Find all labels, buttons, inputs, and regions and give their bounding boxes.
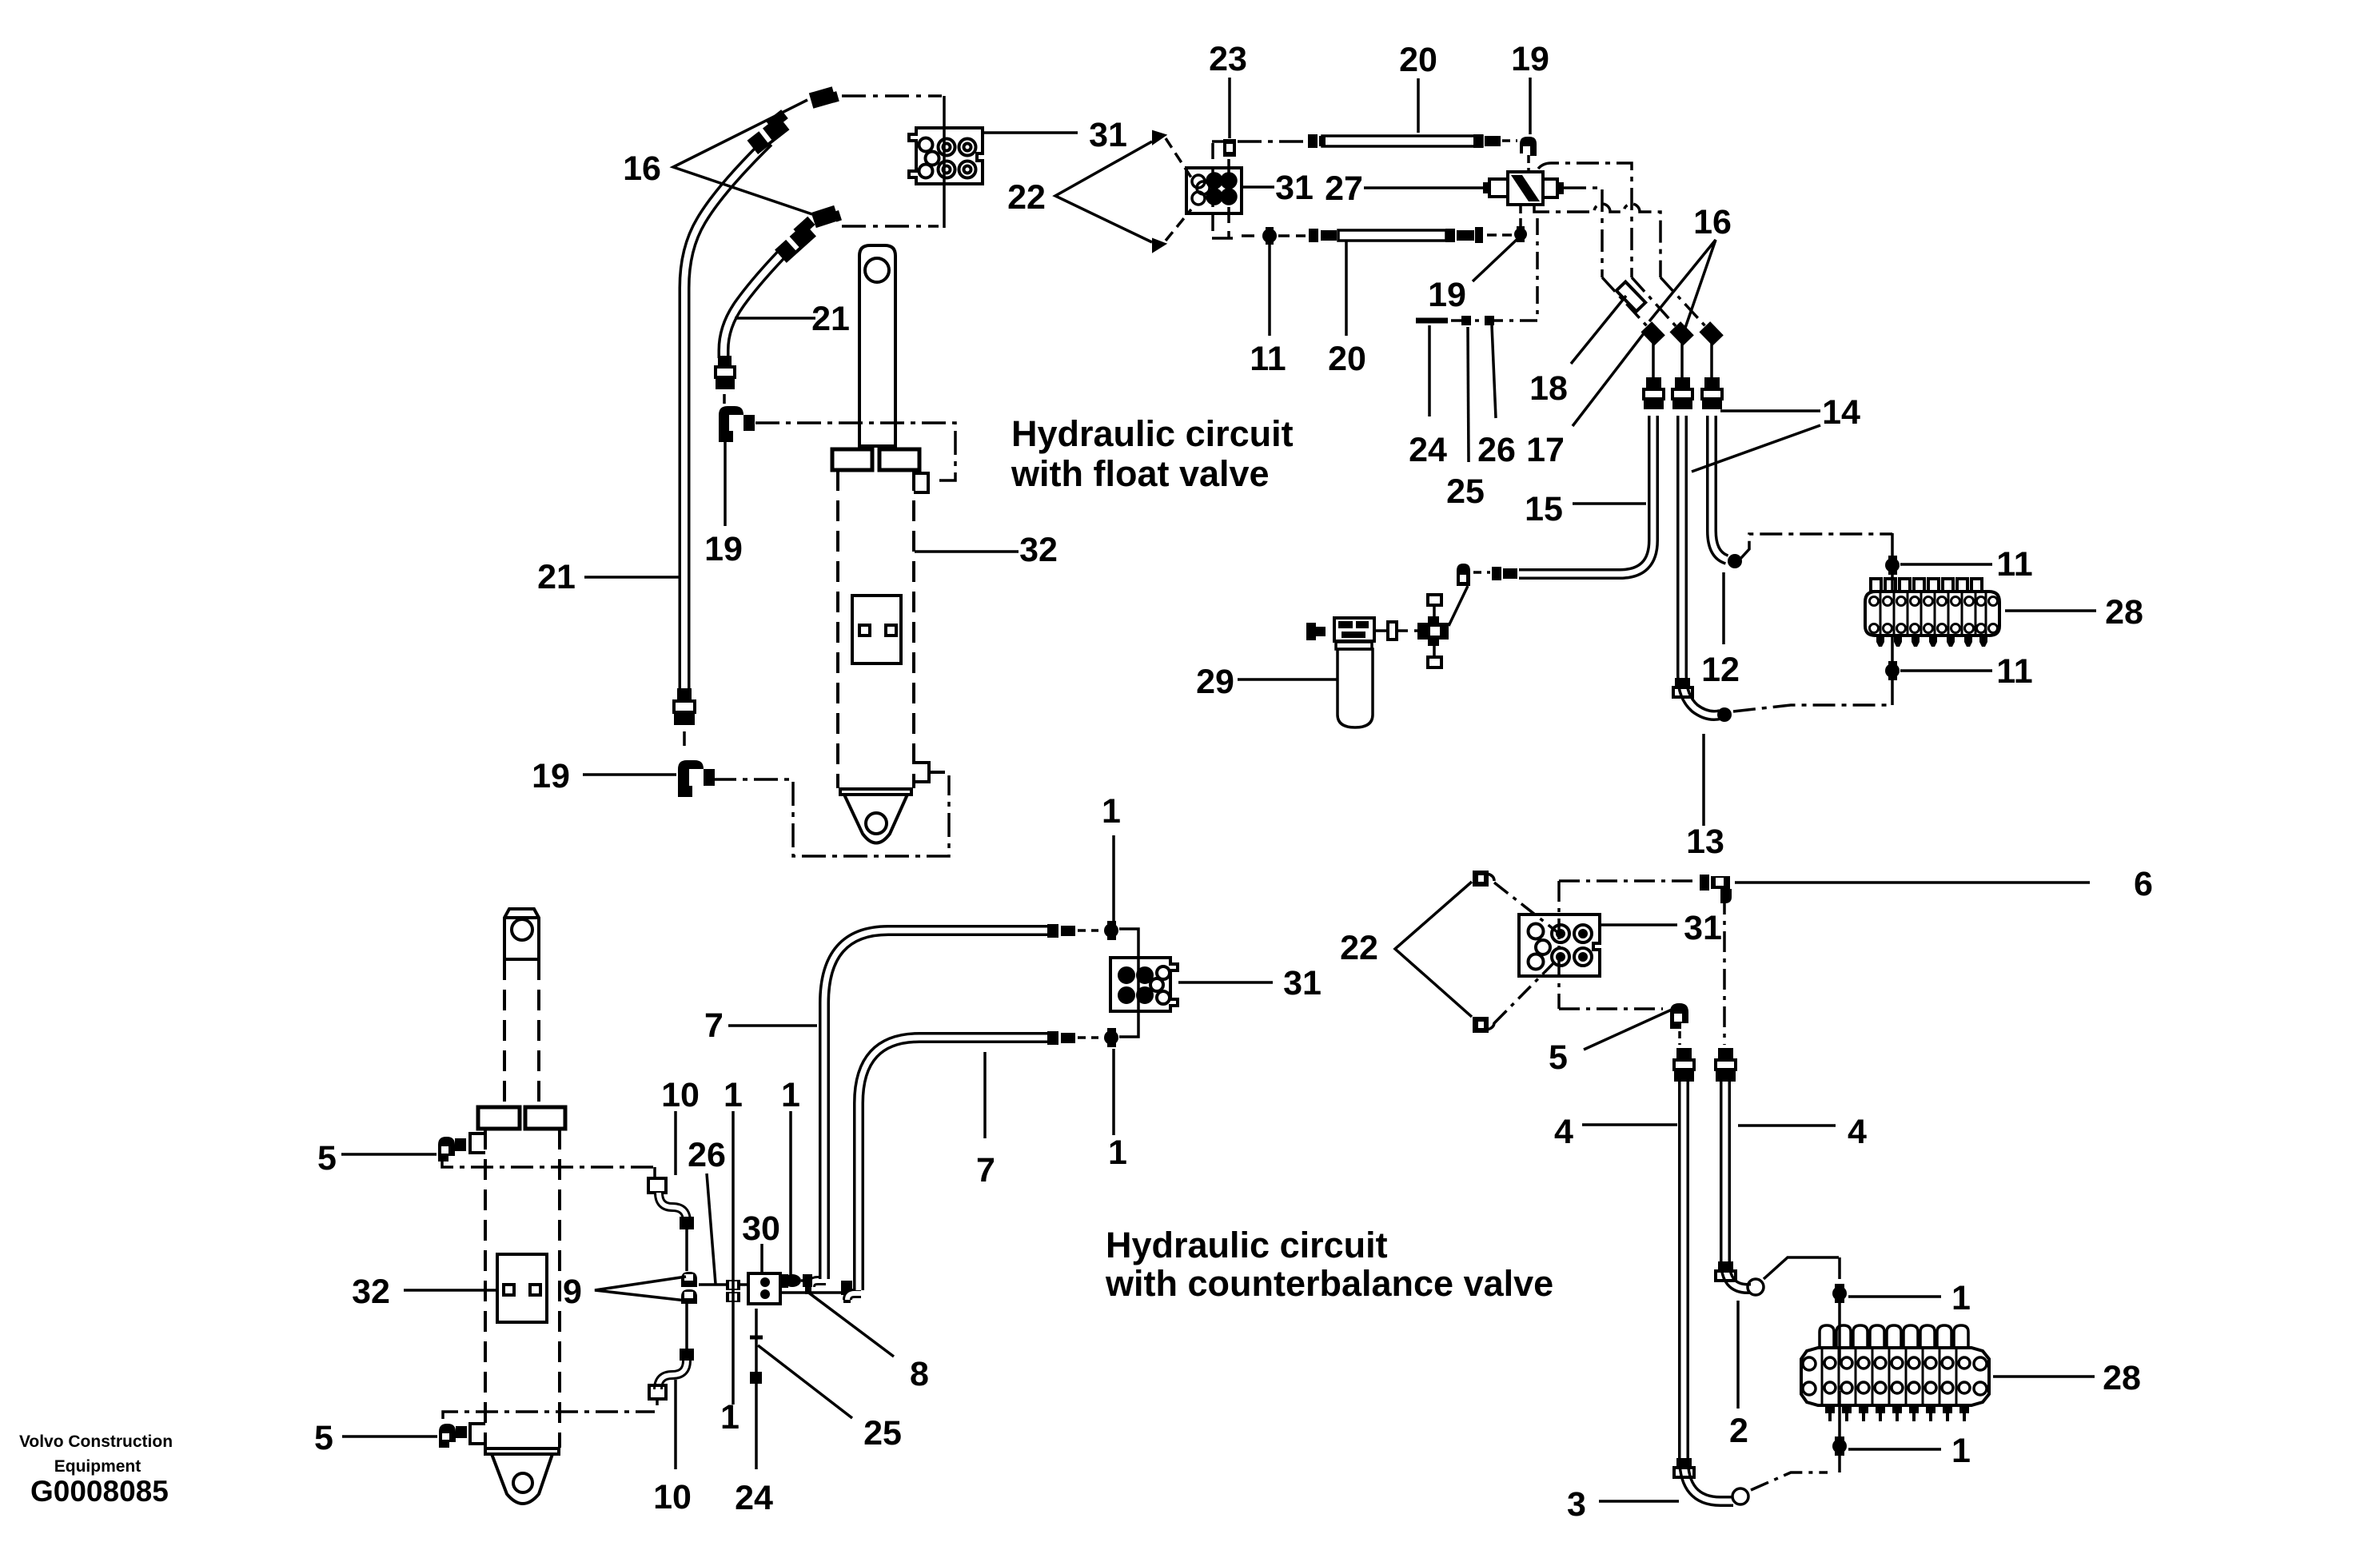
leader 11 top [1900,563,1992,566]
leader 25 [1468,327,1469,462]
port open B4 b [1536,940,1550,954]
fitting dot hose14 end [1728,554,1742,568]
hose 4 left bottom threads [1674,1458,1694,1477]
wire dash elbow6 to hose4 mid [1723,894,1726,1045]
hose 10 upper S [659,1193,687,1221]
fitting 16a bowtie [1640,321,1664,345]
fitting dot hose12 end [1717,707,1732,722]
svg-text:5: 5 [314,1419,333,1457]
port open circle B1 a [919,138,933,152]
wire dash-dot top to elbow 6 [1559,879,1696,883]
manifold top tabs [1871,579,1982,592]
leader 8 [807,1292,894,1357]
svg-text:5: 5 [1549,1038,1568,1077]
washer 1 upper bowtie [726,1280,740,1290]
valve block 31 B1 [909,128,983,184]
hose 4 left [1684,1082,1733,1501]
washer right of head [1388,622,1397,640]
fitting 5 bottom [439,1424,467,1448]
manifold bottom pins [1825,1405,1969,1421]
fitting 11 bottom dot [1885,661,1900,680]
hose 21 right bottom threads [716,356,735,389]
wire dash-dot B1 top to hose16 upper [842,94,942,98]
svg-text:25: 25 [863,1414,902,1452]
port donut B1 1 [939,139,955,156]
svg-text:14: 14 [1822,393,1860,432]
leader 22 bottom fan [1395,882,1472,1017]
leader 19 top [1529,78,1532,134]
wire dash 11 to hose20 lower [1278,234,1306,237]
svg-text:9: 9 [563,1273,582,1311]
valve 30 port a [760,1277,770,1287]
svg-text:Hydraulic circuit: Hydraulic circuit [1011,413,1294,454]
manifold end circles right [1974,1357,1987,1395]
fitting 1 dot upper [1104,921,1118,940]
port open circle B2 b [1197,181,1210,194]
hose 21 left end fitting threads top [747,110,790,154]
wire 17c to hose14 [1710,342,1713,377]
leader 32 bottom [404,1289,497,1292]
hose 4 mid bottom threads [1716,1261,1736,1281]
bottom clevis [492,1454,552,1504]
svg-text:20: 20 [1399,41,1437,79]
wire hose3 to corner [1751,1472,1828,1490]
barrel bottom plate [485,1448,559,1454]
hose 21 right (shorter, from lower fitting curving down) [724,236,799,358]
leader 25 bottom [758,1345,852,1418]
hose 21 left cap nut 16 upper [809,86,839,108]
port filled B2 1 [1207,173,1222,188]
window square b [886,625,896,636]
valve block 31 B2 [1186,168,1242,213]
svg-text:31: 31 [1275,169,1314,207]
manifold bottom pins [1876,636,1987,647]
manifold circles row2 [1824,1382,1970,1393]
arrowhead 22 upper [1153,131,1166,144]
strip 23 bottom edge [1212,237,1233,240]
leader 21 left [584,576,681,579]
wire dash elbow to hose15 [1473,571,1490,574]
hose 20 top [1308,134,1501,148]
hose 4 mid top threads [1716,1048,1736,1082]
wire dash to dot 1 [1078,929,1098,932]
fitting 10 upper elbow square [648,1167,666,1193]
svg-text:16: 16 [1693,203,1732,241]
filter 29 head bolt left [1306,623,1326,640]
wire dash below hose 21 right [723,394,726,404]
leader 1 below B3 [1112,1049,1115,1135]
wire dash-dot bottom port right [443,1412,655,1419]
leader 11 [1268,242,1271,336]
wire dot1 down to manifold [1838,1303,1841,1362]
leader 4 left [1582,1123,1677,1126]
svg-text:28: 28 [2105,593,2143,632]
port donut B4 4 [1574,948,1592,966]
leader 9 fan [595,1277,686,1301]
leader 17 diag [1573,329,1647,426]
leader 1a vertical through washers [732,1111,735,1405]
arrowhead 22 lower [1153,239,1166,252]
float valve 27 body [1483,172,1564,205]
wire dash-dot 22b to B4 [1494,959,1557,1023]
wire dash-dot B2 to fitting 11 [1242,234,1260,237]
wire dash-dot top port right [442,1156,655,1167]
leader 29 [1238,678,1337,681]
wire manifold to bottom dot1 [1838,1391,1841,1436]
fitting 11 dot [1262,227,1277,245]
cross top bolt [1428,595,1441,616]
leader 1 manifold top [1848,1295,1941,1298]
elbow 5 right [1670,1003,1688,1029]
leader 1b vertical [789,1111,792,1277]
svg-text:1: 1 [724,1076,743,1114]
svg-text:25: 25 [1446,472,1485,511]
svg-text:4: 4 [1554,1113,1573,1151]
svg-text:2: 2 [1729,1412,1748,1450]
port open circle B2 c [1192,192,1205,205]
hose 7 lower [859,1038,1047,1290]
port donut B4 2 [1574,925,1592,942]
leader 31 B3 [1178,981,1273,984]
svg-text:22: 22 [1340,929,1378,967]
hose 3 end ring [1732,1488,1748,1504]
window square a [504,1285,514,1295]
barrel bottom plate [840,789,911,795]
port open B3 c [1157,991,1170,1004]
svg-text:32: 32 [1019,531,1058,569]
cross bottom bolt [1428,646,1441,667]
svg-text:19: 19 [1428,276,1466,314]
gland nut right [525,1107,565,1129]
svg-text:26: 26 [1477,431,1516,469]
manifold port circles row1 [1870,597,1998,606]
side port upper right [914,473,928,492]
leader 11 bottom [1900,669,1992,672]
valve 30 port b [760,1289,770,1299]
manifold top caps row [1820,1325,1968,1348]
bottom clevis [844,795,907,843]
cylinder 32 bottom rod [504,909,539,959]
svg-text:21: 21 [811,300,850,338]
svg-text:1: 1 [720,1398,740,1436]
port donut B1 2 [959,139,976,156]
hose 21 left bottom threads [674,688,695,725]
wire cross to elbow15 [1449,586,1468,626]
manifold end circles left [1803,1357,1816,1395]
leader 19 upper vertical [724,432,727,526]
leader 2 [1736,1301,1740,1409]
leader 16 right fan [1649,240,1716,328]
hose 21 right cap nut 16 lower [811,205,842,228]
bottom port left [470,1424,485,1444]
wire washer to cross [1397,629,1417,632]
svg-text:with counterbalance valve: with counterbalance valve [1105,1263,1553,1304]
svg-text:12: 12 [1701,651,1740,689]
svg-text:19: 19 [704,530,743,568]
hose 21 left long (down from upper fitting, vertical to bottom) [684,141,768,689]
hose 7 upper [824,930,1047,1279]
rod dashed left [503,959,506,1107]
fitting 1 dot manifold top [1832,1284,1847,1303]
fitting 8 at valve right [782,1274,801,1288]
leader 5 top [341,1153,437,1156]
leader 19 diag [1473,239,1517,281]
svg-text:24: 24 [735,1479,773,1517]
leader 4 right [1738,1124,1836,1127]
svg-text:10: 10 [653,1478,692,1516]
leader 12 vertical [1722,572,1725,644]
leader 31 B4 [1601,923,1677,926]
svg-text:4: 4 [1848,1113,1867,1151]
svg-text:27: 27 [1325,169,1363,208]
top port left [470,1134,485,1153]
svg-text:5: 5 [317,1139,337,1177]
wire dash-dot valve27 bottom line C with bumps [1534,204,1660,277]
leader 1 above B3 [1112,835,1115,921]
svg-text:22: 22 [1007,178,1046,217]
leader 23 [1228,78,1231,138]
leader 20 top [1417,78,1420,133]
elbow B hose7 lower end [841,1281,852,1303]
svg-text:15: 15 [1525,490,1563,528]
port open B3 a [1157,966,1170,979]
wire dash-dot strip23 to hose20 top [1238,140,1306,143]
valve block 31 B4 [1519,914,1600,976]
leader 6 [1735,881,2090,884]
svg-text:1: 1 [1102,792,1121,831]
svg-text:16: 16 [623,149,661,188]
filter collar [1336,642,1372,649]
leader 27 [1364,186,1483,189]
svg-text:31: 31 [1089,116,1127,154]
hose 20 lower [1309,227,1483,243]
fitting 17c bowtie [1699,321,1723,345]
leader 24 [1428,325,1431,416]
clevis eye [866,813,887,834]
svg-text:19: 19 [1511,40,1549,78]
wire dash to dot 1 lower [1078,1036,1098,1039]
elbow near hose15 [1457,564,1470,586]
port filled B3 1 [1119,968,1134,982]
port donut B1 3 [939,161,955,178]
wire ticked line for 24 25 26 [1416,318,1448,324]
manifold circles row1 [1824,1357,1970,1369]
slant C to fitting 17c [1660,277,1707,328]
hose 12 top threads [1672,377,1692,409]
wire head to washer [1374,629,1388,632]
svg-text:1: 1 [781,1076,800,1114]
cylinder 32 top rod [859,245,895,446]
wire elbowA to elbowB [780,1291,847,1294]
leader 7 upper [728,1024,817,1027]
port open circle B1 c [919,165,933,178]
barrel dashed left [836,470,839,788]
hose 15 left cap [1492,567,1517,580]
leader 18 diag [1571,296,1626,364]
filter 29 head [1334,618,1374,641]
wire dash-dot elbow19 to cylinder port [755,423,955,480]
wire hose2 to corner [1764,1257,1839,1279]
svg-text:11: 11 [1996,652,2032,691]
svg-text:31: 31 [1684,909,1722,947]
fitting 5 top [438,1137,466,1162]
svg-text:7: 7 [976,1151,995,1189]
wire down to lower fitting [685,1304,688,1349]
leader 31 B1 [983,131,1078,134]
wire dash hose20top to elbow19 [1502,139,1517,142]
wire dash below hose 21 left [683,731,686,752]
strip 23 hidden plate dashed right [1227,159,1230,237]
wire dash-dot valve27 right port line A [1564,188,1602,277]
barrel dashed right [558,1129,561,1448]
svg-text:6: 6 [2134,865,2153,903]
valve window 32 bottom [497,1254,547,1322]
manifold 28 top body [1865,592,1999,636]
valve 27 right port [1543,179,1557,197]
svg-text:with float valve: with float valve [1011,453,1270,494]
leader 19 bottom [583,773,676,776]
barrel dashed left [484,1129,487,1448]
svg-text:18: 18 [1529,369,1568,408]
leader 20 lower [1345,241,1348,336]
port open B4 a [1529,924,1544,939]
svg-text:11: 11 [1250,340,1286,378]
port open B4 c [1529,954,1544,970]
manifold dividers [1822,1348,1956,1405]
wire vertical through B1 [943,96,946,228]
wire 9 to washers [699,1283,726,1286]
valve 30 body [748,1273,780,1304]
wire washers to valve30 [740,1283,748,1286]
strip 23 hidden plate dashed left [1211,143,1214,237]
wire through B3 [1119,929,1138,1037]
wire dash-dot valve27 top loop line B [1538,163,1632,277]
svg-text:23: 23 [1209,40,1247,78]
svg-text:17: 17 [1526,431,1565,469]
filter head details [1338,621,1369,638]
elbow 19 bottom left [678,760,715,797]
hose 10 upper end fitting [680,1217,694,1229]
leader fan 16 left [673,100,812,214]
hose 7 lower end cap [1047,1031,1075,1045]
hose 14 [1712,416,1727,560]
leader 30 [760,1244,763,1273]
window square a [859,625,870,636]
leader 14 horizontal [1720,409,1820,412]
leader 28 bottom [1993,1375,2095,1378]
tick 25 [1461,316,1471,325]
port filled B2 4 [1222,189,1236,204]
hose 2 end ring [1748,1279,1764,1295]
svg-text:1: 1 [1951,1279,1971,1317]
hose 10 lower S [658,1361,687,1389]
hose 12 bottom threads [1673,678,1692,697]
wire dash hose20lower to fitting19 [1487,233,1513,237]
leader 7 lower [983,1052,987,1138]
manifold sections dividers [1880,592,1986,636]
window square b [530,1285,540,1295]
wire dash-dot from elbow 19 to clevis box [712,775,949,856]
leader 26 [1492,325,1496,418]
wire corner down to dot1 [1838,1257,1841,1279]
svg-text:31: 31 [1283,964,1322,1002]
port donut B4 3 [1552,948,1569,966]
gland nut left [478,1107,520,1129]
elbow 19 upper [719,406,755,442]
hose 12 [1682,416,1720,715]
cross fitting [1417,616,1449,646]
wire manifold bottom port vertical [1891,636,1894,705]
gland nut left [832,449,872,470]
filter cartridge 29 [1338,649,1373,727]
slant A to fitting 16a [1602,277,1648,328]
fitting 19 below valve27 [1514,226,1527,242]
hose 15 top threads [1644,377,1664,409]
hose 10 lower fitting [680,1349,694,1361]
wire manifold top port vertical [1891,533,1894,592]
elbow A hose7 upper end [811,1281,826,1287]
svg-text:30: 30 [742,1209,780,1248]
valve 27 left port [1489,179,1508,197]
leader 1 manifold bottom [1848,1448,1941,1451]
side port lower right [914,763,929,782]
fitting 18 on slant A [1617,281,1646,311]
hose 4 middle [1725,1082,1751,1289]
fitting 1 dot lower [1104,1028,1118,1047]
svg-text:19: 19 [532,757,570,795]
leader 24 bottom vertical [755,1309,758,1469]
leader 5 bottom [342,1435,437,1438]
leader 22 top fan [1055,141,1152,242]
strip 23 top fitting [1223,139,1236,157]
bolt 24 target [750,1372,762,1384]
valve block 31 B3 [1110,958,1178,1011]
wire dash to corner [656,1399,659,1409]
elbow 6 [1700,875,1732,903]
svg-text:1: 1 [1108,1134,1127,1172]
hose 21 right threads upper [775,217,816,263]
manifold 28 bottom body [1801,1348,1989,1405]
leader 13 [1702,734,1705,826]
wire 16a to hose15 [1652,342,1655,377]
fitting 22 upper bowtie [1473,871,1494,887]
slant B to fitting 16b [1632,277,1677,328]
svg-text:29: 29 [1196,663,1234,701]
fitting 10 lower square [649,1385,666,1399]
leader 14 diagonal [1692,425,1820,472]
leader 31 B2 [1242,185,1274,189]
leader 10 top [674,1111,677,1175]
tick on 24 leader [750,1336,763,1340]
leader 26 bottom [707,1173,716,1284]
hose 7 upper end cap [1047,924,1075,938]
port open circle B1 b [926,152,939,165]
svg-text:Equipment: Equipment [54,1457,142,1476]
wire dash-dot hose12 to manifold bottom [1733,705,1892,711]
wire dash-dot port to box right [929,771,949,774]
svg-text:G0008085: G0008085 [30,1475,169,1508]
leader 28 top [2005,609,2096,612]
wire dash elbow19 to valve27 [1527,155,1530,172]
valve window 32 [852,596,901,663]
gland nut right [879,449,919,470]
hose 15 [1519,416,1653,574]
leader 3 [1599,1500,1679,1503]
wire dash-dot 22a to B4 [1494,883,1557,932]
fitting 16b bowtie [1669,321,1693,345]
svg-text:10: 10 [661,1076,700,1114]
svg-text:28: 28 [2103,1359,2141,1397]
